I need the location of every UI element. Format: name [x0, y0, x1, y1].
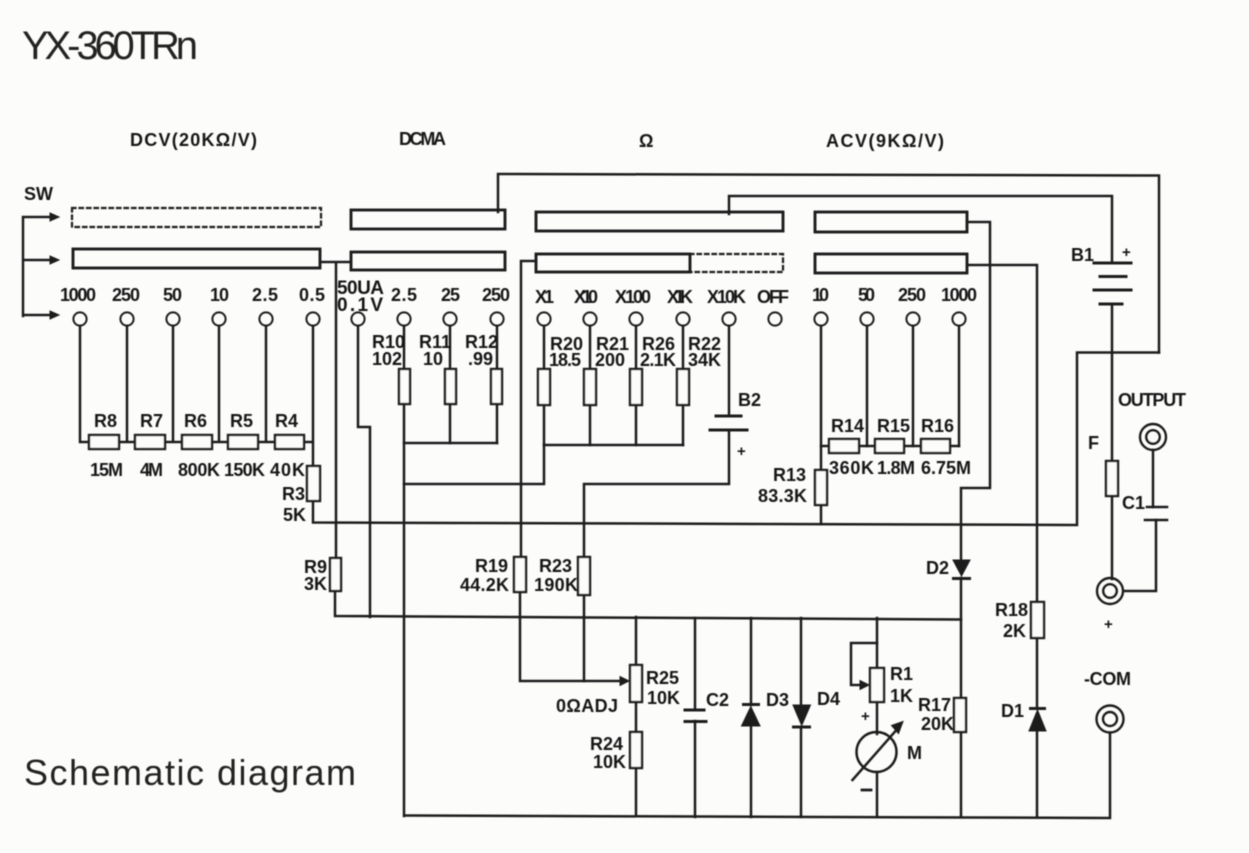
svg-text:34K: 34K	[688, 350, 721, 370]
svg-text:X1K: X1K	[667, 287, 693, 307]
svg-text:0.5: 0.5	[299, 285, 325, 305]
svg-text:R1: R1	[890, 664, 913, 684]
svg-text:ACV(9KΩ/V): ACV(9KΩ/V)	[826, 131, 944, 151]
svg-text:OFF: OFF	[757, 287, 789, 307]
svg-text:M: M	[907, 743, 922, 763]
svg-text:X10: X10	[574, 287, 598, 307]
svg-text:360K: 360K	[829, 458, 874, 478]
svg-text:2.1K: 2.1K	[640, 350, 676, 370]
svg-text:YX-360TRn: YX-360TRn	[22, 24, 198, 68]
svg-text:R18: R18	[995, 600, 1028, 620]
svg-text:+: +	[861, 708, 870, 725]
svg-text:R25: R25	[646, 668, 679, 688]
svg-text:83.3K: 83.3K	[758, 486, 807, 506]
svg-text:F: F	[1088, 433, 1099, 453]
svg-text:R7: R7	[140, 411, 163, 431]
svg-text:R6: R6	[184, 411, 207, 431]
svg-text:R16: R16	[921, 416, 954, 436]
svg-text:R4: R4	[275, 411, 298, 431]
svg-text:Ω: Ω	[639, 131, 653, 151]
svg-text:C1: C1	[1122, 493, 1145, 513]
svg-text:1K: 1K	[890, 686, 913, 706]
svg-text:25: 25	[441, 285, 460, 305]
svg-text:R8: R8	[94, 411, 117, 431]
svg-text:+: +	[1122, 244, 1131, 261]
svg-text:D1: D1	[1001, 701, 1024, 721]
svg-text:10: 10	[812, 285, 829, 305]
svg-text:10K: 10K	[593, 752, 626, 772]
svg-text:1000: 1000	[941, 285, 977, 305]
svg-text:15M: 15M	[90, 460, 123, 480]
svg-text:0.1V: 0.1V	[337, 295, 383, 316]
svg-text:+: +	[737, 443, 746, 460]
svg-text:20K: 20K	[921, 714, 954, 734]
svg-text:DCV(20KΩ/V): DCV(20KΩ/V)	[130, 130, 257, 150]
svg-text:X1: X1	[535, 287, 554, 307]
svg-text:250: 250	[112, 285, 140, 305]
svg-text:B2: B2	[738, 390, 761, 410]
svg-text:R24: R24	[590, 734, 623, 754]
svg-text:6.75M: 6.75M	[921, 458, 971, 478]
svg-text:1000: 1000	[60, 285, 96, 305]
svg-text:200: 200	[595, 350, 625, 370]
svg-text:R5: R5	[230, 411, 253, 431]
svg-text:18.5: 18.5	[549, 350, 581, 370]
svg-text:5K: 5K	[283, 505, 306, 525]
svg-text:X10K: X10K	[707, 287, 746, 307]
svg-text:+: +	[1104, 616, 1113, 633]
svg-text:OUTPUT: OUTPUT	[1118, 390, 1186, 410]
svg-text:-COM: -COM	[1084, 669, 1131, 689]
svg-text:Schematic diagram: Schematic diagram	[24, 752, 356, 793]
svg-text:150K: 150K	[224, 460, 265, 480]
svg-text:4M: 4M	[140, 460, 163, 480]
svg-text:R23: R23	[539, 556, 572, 576]
svg-text:10: 10	[423, 349, 443, 369]
svg-text:2.5: 2.5	[391, 285, 417, 305]
svg-text:R13: R13	[773, 465, 806, 485]
svg-text:C2: C2	[706, 690, 729, 710]
svg-text:D3: D3	[766, 690, 789, 710]
svg-text:R17: R17	[918, 695, 951, 715]
svg-text:D4: D4	[817, 689, 840, 709]
svg-text:50: 50	[163, 285, 182, 305]
svg-text:R19: R19	[475, 556, 508, 576]
svg-text:R3: R3	[282, 484, 305, 504]
svg-text:D2: D2	[926, 558, 949, 578]
svg-text:2K: 2K	[1003, 621, 1026, 641]
svg-text:10: 10	[210, 285, 229, 305]
svg-text:190K: 190K	[534, 575, 578, 595]
svg-text:1.8M: 1.8M	[877, 458, 915, 478]
svg-text:102: 102	[372, 349, 402, 369]
svg-text:250: 250	[898, 285, 926, 305]
svg-text:10K: 10K	[647, 688, 680, 708]
svg-text:800K: 800K	[178, 460, 220, 480]
svg-text:40K: 40K	[270, 460, 305, 480]
svg-text:3K: 3K	[304, 574, 327, 594]
svg-text:0ΩADJ: 0ΩADJ	[556, 696, 618, 716]
svg-text:.99: .99	[468, 349, 493, 369]
svg-text:SW: SW	[24, 184, 53, 204]
svg-text:2.5: 2.5	[252, 285, 278, 305]
svg-text:B1: B1	[1071, 245, 1094, 265]
svg-text:DCMA: DCMA	[399, 129, 446, 149]
svg-text:X100: X100	[615, 287, 651, 307]
svg-text:50: 50	[858, 285, 875, 305]
svg-text:44.2K: 44.2K	[460, 575, 509, 595]
svg-text:R15: R15	[877, 416, 910, 436]
svg-text:250: 250	[482, 285, 510, 305]
svg-text:R14: R14	[831, 416, 864, 436]
